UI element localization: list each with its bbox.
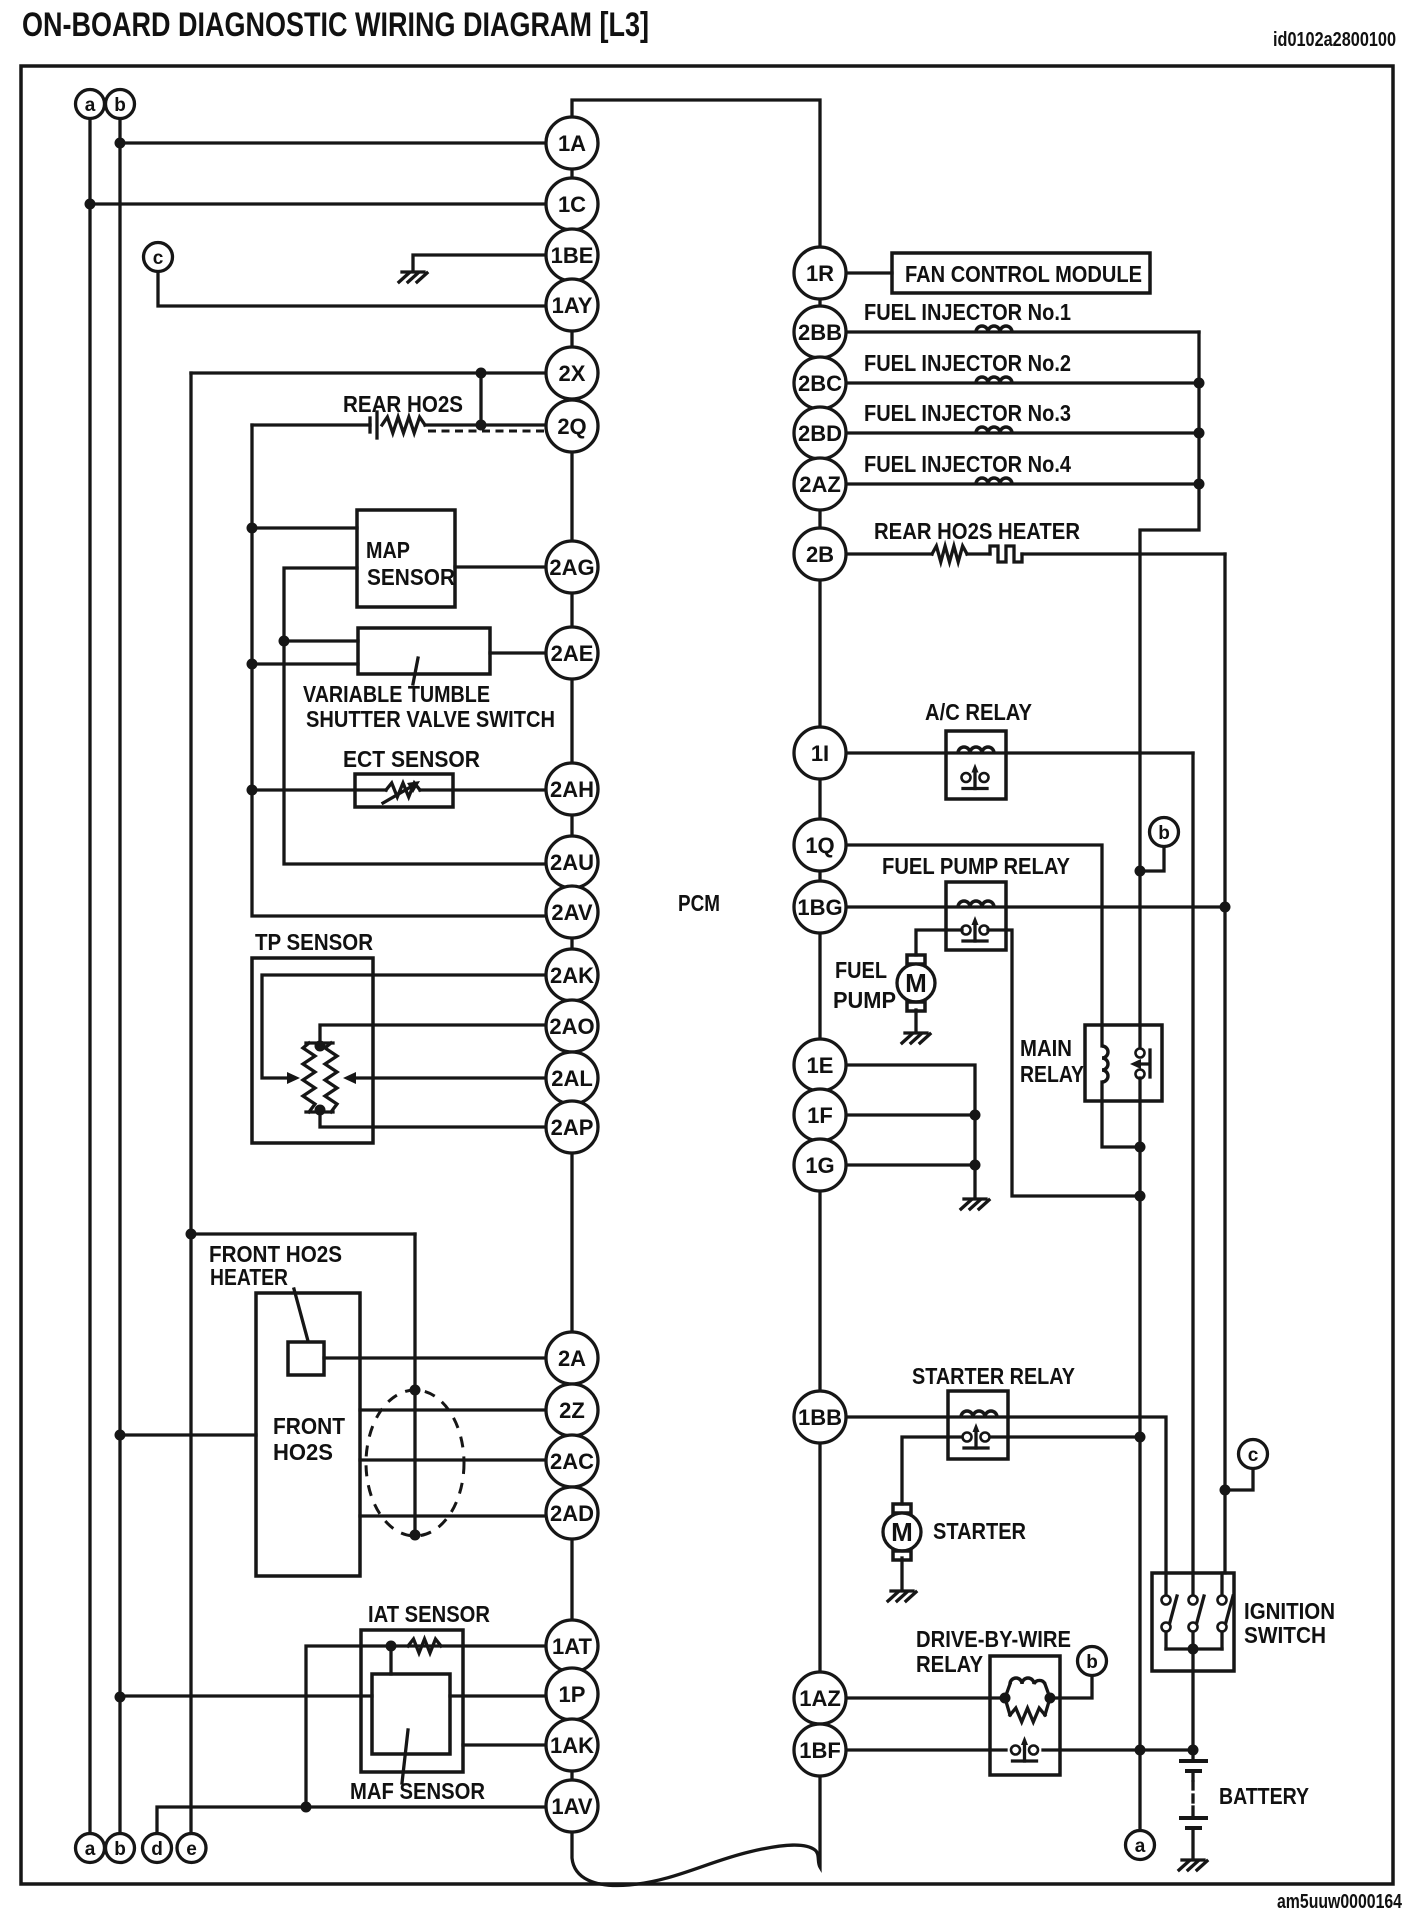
- wire REAR HO2S to 2Q solid: [425, 423, 572, 426]
- wire 1P right segment: [450, 1694, 572, 1697]
- svg-text:2AC: 2AC: [550, 1449, 594, 1474]
- PCM pin 2Q: [546, 400, 598, 452]
- svg-text:SHUTTER VALVE SWITCH: SHUTTER VALVE SWITCH: [306, 706, 555, 732]
- svg-text:1F: 1F: [807, 1103, 833, 1128]
- wire fuel injector No.2: [820, 381, 1199, 384]
- svg-text:2AZ: 2AZ: [799, 472, 841, 497]
- starter relay switch: [963, 1423, 990, 1448]
- PCM pin 1F: [794, 1089, 846, 1141]
- PCM pin 1AV: [546, 1780, 598, 1832]
- wire starter relay to rail a: [990, 1435, 1140, 1438]
- junction rail e / shield wire: [186, 1229, 197, 1240]
- PCM pin 2BB: [794, 306, 846, 358]
- junction injector rail: [1194, 479, 1205, 490]
- wire 1AZ to DBW relay: [820, 1696, 1005, 1699]
- node a: [76, 1834, 105, 1863]
- svg-text:2A: 2A: [558, 1346, 586, 1371]
- wire c to 1AY: [158, 272, 572, 306]
- wire 1AK: [463, 1743, 572, 1746]
- svg-text:2BD: 2BD: [798, 421, 842, 446]
- wire 1BB through starter relay coil: [820, 1417, 1166, 1595]
- FRONT HO2S box: [256, 1293, 360, 1576]
- PCM pin 2AZ: [794, 458, 846, 510]
- svg-text:ON-BOARD DIAGNOSTIC WIRING DIA: ON-BOARD DIAGNOSTIC WIRING DIAGRAM [L3]: [22, 6, 649, 44]
- wire rail b to front HO2S: [120, 1433, 256, 1436]
- PCM pin 2AE: [546, 627, 598, 679]
- wire 1P left segment: [120, 1694, 372, 1697]
- wire 1BG through fuel pump relay coil: [820, 905, 1225, 908]
- wire to VTSS upper: [284, 639, 358, 642]
- wire MAP to 2AG: [455, 565, 572, 568]
- PCM left column rail: [570, 143, 573, 1832]
- svg-text:REAR HO2S: REAR HO2S: [343, 391, 463, 417]
- wire rail a (left): [88, 118, 91, 1833]
- svg-text:1BB: 1BB: [798, 1405, 842, 1430]
- junction 1BG / 2B rail: [1220, 902, 1231, 913]
- wire fuel pump motor to ground: [914, 1010, 917, 1031]
- junction MAP tap: [247, 523, 258, 534]
- svg-text:REAR HO2S HEATER: REAR HO2S HEATER: [874, 518, 1080, 544]
- junction injector rail: [1194, 428, 1205, 439]
- svg-text:b: b: [114, 95, 126, 116]
- junction rail a / 1BF: [1135, 1745, 1146, 1756]
- junction starter relay tap: [1135, 1432, 1146, 1443]
- svg-text:1BF: 1BF: [799, 1738, 841, 1763]
- PCM top wire 1A to 1R: [572, 100, 820, 273]
- ignition switch box: [1152, 1573, 1234, 1671]
- starter relay box: [948, 1391, 1008, 1459]
- wire 2B rail down to ignition switch: [1222, 554, 1225, 1595]
- junction 1G: [970, 1160, 981, 1171]
- junction shield bottom: [410, 1530, 421, 1541]
- svg-text:STARTER RELAY: STARTER RELAY: [912, 1363, 1075, 1389]
- svg-text:PUMP: PUMP: [833, 987, 896, 1013]
- wire front HO2S to 2AD: [360, 1514, 572, 1517]
- svg-text:1I: 1I: [811, 741, 829, 766]
- svg-text:PCM: PCM: [678, 890, 720, 916]
- fuel pump motor M: [897, 955, 935, 1011]
- TP potentiometer: [303, 1043, 337, 1112]
- shielded cable: [366, 1390, 464, 1536]
- VTSS lead line: [413, 658, 418, 684]
- wire A/C relay rail to ignition switch: [1191, 753, 1194, 1595]
- junction 2X link bottom: [476, 420, 487, 431]
- IAT stub to MAF: [389, 1646, 392, 1674]
- ground at 1BE: [399, 272, 427, 282]
- main relay coil wire to rail: [1102, 1082, 1140, 1147]
- svg-text:c: c: [1248, 1445, 1259, 1466]
- wire rail e vertical: [189, 373, 192, 1833]
- junction 1AV/1AT rail: [301, 1802, 312, 1813]
- wire ECT to 2AH: [252, 788, 572, 791]
- node c: [1239, 1440, 1268, 1469]
- svg-text:MAP: MAP: [366, 537, 410, 563]
- A/C relay coil: [958, 747, 994, 753]
- svg-text:2B: 2B: [806, 542, 834, 567]
- wire 1Q to main relay coil: [820, 845, 1102, 1046]
- MAP sensor box: [357, 510, 455, 607]
- svg-text:1R: 1R: [806, 261, 834, 286]
- main relay coil: [1102, 1046, 1108, 1082]
- svg-text:1BG: 1BG: [797, 895, 842, 920]
- wire 1I through A/C relay coil: [820, 751, 1193, 754]
- battery: [1181, 1750, 1206, 1858]
- svg-text:FUEL: FUEL: [835, 957, 887, 983]
- ground starter: [888, 1591, 916, 1601]
- starter relay coil: [961, 1411, 997, 1417]
- node b: [1150, 818, 1179, 847]
- svg-text:HO2S: HO2S: [273, 1439, 333, 1465]
- wire 1A to rail b: [120, 141, 572, 144]
- svg-text:SWITCH: SWITCH: [1244, 1622, 1326, 1648]
- shield drain wire: [413, 1234, 416, 1535]
- PCM pin 1AK: [546, 1719, 598, 1771]
- A/C relay switch: [962, 764, 989, 789]
- svg-text:RELAY: RELAY: [916, 1651, 983, 1677]
- PCM right column rail: [818, 273, 821, 1776]
- PCM pin 2AG: [546, 541, 598, 593]
- node b: [106, 90, 135, 119]
- PCM pin 1AY: [546, 279, 598, 331]
- main relay switch rail down: [1138, 1078, 1141, 1830]
- PCM pin 1BB: [794, 1391, 846, 1443]
- ground battery: [1179, 1860, 1207, 1870]
- junction rail b 1P: [115, 1692, 126, 1703]
- svg-text:2BC: 2BC: [798, 371, 842, 396]
- svg-text:FUEL PUMP RELAY: FUEL PUMP RELAY: [882, 853, 1070, 879]
- svg-text:M: M: [905, 968, 927, 998]
- svg-text:A/C RELAY: A/C RELAY: [925, 699, 1032, 725]
- wire to VTSS lower: [252, 662, 358, 665]
- ignition switch common bus: [1166, 1649, 1222, 1750]
- PCM pin 1AT: [546, 1620, 598, 1672]
- PCM pin 2AP: [546, 1101, 598, 1153]
- wire rail from 2Q area down to 2AV: [252, 425, 572, 916]
- ECT thermistor: [386, 783, 420, 797]
- junction 1F: [970, 1110, 981, 1121]
- svg-text:1Q: 1Q: [805, 833, 834, 858]
- svg-text:2Z: 2Z: [559, 1398, 585, 1423]
- wire TP to 2AO: [320, 1025, 572, 1043]
- svg-text:b: b: [114, 1839, 126, 1860]
- svg-text:FAN CONTROL MODULE: FAN CONTROL MODULE: [905, 261, 1142, 287]
- svg-text:IGNITION: IGNITION: [1244, 1598, 1335, 1624]
- fuel injector No.3 coil: [976, 427, 1012, 433]
- ECT sensor box: [355, 774, 453, 807]
- junction DBW left: [1000, 1693, 1011, 1704]
- wire 2B rear HO2S heater: [820, 552, 1225, 555]
- REAR HO2S sensor wire left: [252, 423, 370, 426]
- main relay box: [1085, 1025, 1162, 1101]
- PCM pin 2AO: [546, 1000, 598, 1052]
- injector collector rail: [1140, 332, 1199, 1049]
- PCM pin 2A: [546, 1332, 598, 1384]
- svg-text:ECT SENSOR: ECT SENSOR: [343, 746, 480, 772]
- wire starter relay to starter motor: [902, 1437, 962, 1504]
- fuel pump relay switch: [962, 916, 989, 941]
- junction ignition common: [1188, 1644, 1199, 1655]
- junction injector rail: [1194, 378, 1205, 389]
- PCM pin 1G: [794, 1139, 846, 1191]
- wire DBW switch to battery: [1043, 1748, 1193, 1751]
- svg-text:2Q: 2Q: [557, 414, 586, 439]
- svg-text:2AG: 2AG: [549, 555, 594, 580]
- node d: [143, 1834, 172, 1863]
- wire 2AK into TP wiper: [262, 975, 572, 1078]
- svg-text:HEATER: HEATER: [210, 1264, 288, 1290]
- ground fuel pump: [902, 1033, 930, 1043]
- svg-text:a: a: [85, 1839, 96, 1860]
- wire fuel pump relay to main relay rail: [988, 930, 1140, 1196]
- PCM pin 1I: [794, 727, 846, 779]
- node a: [1126, 1831, 1155, 1860]
- svg-text:c: c: [153, 248, 164, 269]
- PCM pin 1BF: [794, 1724, 846, 1776]
- junction rail b HO2S: [115, 1430, 126, 1441]
- svg-text:VARIABLE TUMBLE: VARIABLE TUMBLE: [303, 681, 490, 707]
- svg-text:FUEL INJECTOR No.3: FUEL INJECTOR No.3: [864, 400, 1071, 426]
- svg-text:2AE: 2AE: [551, 641, 594, 666]
- svg-text:b: b: [1086, 1652, 1098, 1673]
- variable tumble shutter valve switch box: [358, 628, 490, 674]
- svg-text:STARTER: STARTER: [933, 1518, 1026, 1544]
- DBW relay resistor: [1005, 1698, 1050, 1715]
- svg-text:1P: 1P: [559, 1682, 586, 1707]
- node a: [76, 90, 105, 119]
- svg-text:2AP: 2AP: [551, 1115, 594, 1140]
- svg-text:a: a: [1135, 1836, 1146, 1857]
- svg-text:2AL: 2AL: [551, 1066, 593, 1091]
- wire fuel injector No.3: [820, 431, 1199, 434]
- junction shield top: [410, 1385, 421, 1396]
- svg-text:1AY: 1AY: [552, 293, 593, 318]
- PCM pin 2B: [794, 528, 846, 580]
- PCM pin 1BG: [794, 881, 846, 933]
- wire REAR HO2S to 2Q dashed: [428, 430, 546, 433]
- svg-text:2BB: 2BB: [798, 320, 842, 345]
- fuel pump relay coil: [958, 901, 994, 907]
- junction rail b 1A: [115, 138, 126, 149]
- junction 2X link top: [476, 368, 487, 379]
- PCM pin 1R: [794, 247, 846, 299]
- svg-text:a: a: [85, 95, 96, 116]
- wire MAP lower / rail to 2AU: [284, 568, 572, 864]
- svg-text:1BE: 1BE: [551, 243, 594, 268]
- svg-text:id0102a2800100: id0102a2800100: [1273, 29, 1396, 51]
- wire to MAP sensor upper: [252, 526, 357, 529]
- PCM pin 2AK: [546, 949, 598, 1001]
- wire 1BF through DBW switch: [820, 1748, 1006, 1751]
- wire starter motor ground: [900, 1558, 903, 1589]
- wire 1G: [820, 1163, 975, 1166]
- wire 1C to rail a: [90, 202, 572, 205]
- ground 1E/1F/1G: [961, 1199, 989, 1209]
- fuel pump relay box: [946, 882, 1006, 950]
- ignition switch poles: [1162, 1596, 1178, 1650]
- IAT sensor box: [361, 1630, 463, 1772]
- PCM pin 1AZ: [794, 1672, 846, 1724]
- PCM pin 2AC: [546, 1435, 598, 1487]
- PCM pin 2Z: [546, 1384, 598, 1436]
- wire heater to 2A: [324, 1356, 572, 1359]
- svg-text:2AD: 2AD: [550, 1501, 594, 1526]
- junction c tap: [1220, 1485, 1231, 1496]
- svg-text:1G: 1G: [805, 1153, 834, 1178]
- PCM pin 2AU: [546, 836, 598, 888]
- node b: [106, 1834, 135, 1863]
- PCM pin 2AD: [546, 1487, 598, 1539]
- svg-text:1AZ: 1AZ: [799, 1686, 841, 1711]
- wire front HO2S to 2Z: [360, 1408, 572, 1411]
- svg-text:TP SENSOR: TP SENSOR: [255, 929, 373, 955]
- svg-text:DRIVE-BY-WIRE: DRIVE-BY-WIRE: [916, 1626, 1071, 1652]
- junction b tap: [1135, 866, 1146, 877]
- svg-text:2AU: 2AU: [550, 850, 594, 875]
- svg-text:FRONT: FRONT: [273, 1413, 345, 1439]
- wire fuel injector No.4: [820, 482, 1199, 485]
- junction rail a 1C: [85, 199, 96, 210]
- svg-text:2AO: 2AO: [549, 1014, 594, 1039]
- junction fuel pump relay tap: [1135, 1191, 1146, 1202]
- junction TP top: [315, 1041, 326, 1052]
- junction ECT tap: [247, 785, 258, 796]
- svg-text:FUEL INJECTOR No.2: FUEL INJECTOR No.2: [864, 350, 1071, 376]
- PCM pin 1BE: [546, 229, 598, 281]
- junction battery / 1BF: [1188, 1745, 1199, 1756]
- wire 1AT left drop: [306, 1646, 572, 1807]
- wire 1F: [820, 1113, 975, 1116]
- DBW relay coil: [1005, 1684, 1050, 1698]
- PCM pin 2AV: [546, 886, 598, 938]
- junction TP bottom: [315, 1105, 326, 1116]
- wire 1BE to ground: [413, 255, 572, 270]
- svg-text:1AT: 1AT: [552, 1634, 592, 1659]
- junction main relay coil tap: [1135, 1142, 1146, 1153]
- svg-text:e: e: [186, 1839, 197, 1860]
- wire VTSS to 2AE: [490, 651, 572, 654]
- svg-text:M: M: [891, 1517, 913, 1547]
- front HO2S heater element box: [288, 1342, 324, 1375]
- node c: [144, 243, 173, 272]
- fuel injector No.1 coil: [976, 326, 1012, 332]
- wire fuel injector No.1: [820, 330, 1199, 333]
- PCM pin 2X: [546, 347, 598, 399]
- wire 1AV: [157, 1807, 572, 1833]
- svg-text:2X: 2X: [559, 361, 586, 386]
- TP sensor box: [252, 958, 373, 1143]
- DBW relay switch: [1011, 1736, 1038, 1761]
- PCM pin 2BC: [794, 357, 846, 409]
- REAR HO2S sensor symbol: [370, 412, 425, 438]
- heater lead line: [294, 1289, 308, 1341]
- PCM pin 1P: [546, 1668, 598, 1720]
- PCM pin 1Q: [794, 819, 846, 871]
- A/C relay box: [946, 731, 1006, 799]
- PCM pin 1E: [794, 1039, 846, 1091]
- svg-text:1A: 1A: [558, 131, 586, 156]
- svg-text:d: d: [151, 1839, 163, 1860]
- svg-text:BATTERY: BATTERY: [1219, 1783, 1309, 1809]
- wire 2X-2Q link: [479, 373, 482, 425]
- IAT resistor: [408, 1639, 441, 1653]
- node e: [177, 1834, 206, 1863]
- fan control module box: [892, 253, 1150, 293]
- MAF lead line: [402, 1730, 408, 1783]
- svg-text:SENSOR: SENSOR: [367, 564, 455, 590]
- svg-text:2AK: 2AK: [550, 963, 594, 988]
- junction DBW right: [1045, 1693, 1056, 1704]
- fuel injector No.4 coil: [976, 478, 1012, 484]
- node b: [1078, 1647, 1107, 1676]
- wire fuel pump relay to pump motor: [916, 930, 962, 955]
- junction VTSS tap: [279, 636, 290, 647]
- junction IAT: [386, 1641, 397, 1652]
- wire TP to 2AP: [320, 1112, 572, 1127]
- wire 2AL into TP wiper: [355, 1076, 572, 1079]
- svg-text:1AK: 1AK: [550, 1733, 594, 1758]
- svg-text:1AV: 1AV: [551, 1794, 592, 1819]
- junction VTSS tap2: [247, 659, 258, 670]
- wire rail b (left): [118, 118, 121, 1833]
- wire 2X to rail e: [191, 371, 572, 374]
- PCM pin 2AL: [546, 1052, 598, 1104]
- svg-text:am5uuw0000164: am5uuw0000164: [1277, 1891, 1403, 1913]
- rear HO2S heater element: [990, 546, 1022, 562]
- PCM bottom wavy outline: [572, 1774, 820, 1886]
- PCM pin 2BD: [794, 407, 846, 459]
- wire front HO2S to 2AC: [360, 1458, 572, 1461]
- svg-text:FUEL INJECTOR No.4: FUEL INJECTOR No.4: [864, 451, 1071, 477]
- MAF sensor box: [372, 1674, 450, 1754]
- rear HO2S heater resistor: [932, 546, 967, 562]
- wire node b to injector rail: [1140, 847, 1164, 871]
- svg-text:MAF SENSOR: MAF SENSOR: [350, 1778, 485, 1804]
- PCM pin 2AH: [546, 763, 598, 815]
- wire node c to 2B rail: [1225, 1469, 1253, 1490]
- wire rail e to shield: [191, 1232, 415, 1235]
- svg-text:RELAY: RELAY: [1020, 1061, 1084, 1087]
- svg-text:2AH: 2AH: [550, 777, 594, 802]
- drive-by-wire relay box: [990, 1656, 1060, 1775]
- svg-text:1E: 1E: [807, 1053, 834, 1078]
- svg-text:IAT SENSOR: IAT SENSOR: [368, 1601, 490, 1627]
- svg-text:1C: 1C: [558, 192, 586, 217]
- starter motor M: [883, 1504, 921, 1560]
- PCM pin 1A: [546, 117, 598, 169]
- svg-text:FUEL INJECTOR No.1: FUEL INJECTOR No.1: [864, 299, 1071, 325]
- wire 1E: [820, 1065, 975, 1197]
- svg-text:MAIN: MAIN: [1020, 1035, 1072, 1061]
- svg-text:b: b: [1158, 823, 1170, 844]
- svg-text:2AV: 2AV: [551, 900, 592, 925]
- wire 1R to fan control module: [820, 271, 892, 274]
- fuel injector No.2 coil: [976, 377, 1012, 383]
- main relay switch: [1130, 1049, 1150, 1079]
- wire DBW to node b: [1050, 1676, 1092, 1698]
- PCM pin 1C: [546, 178, 598, 230]
